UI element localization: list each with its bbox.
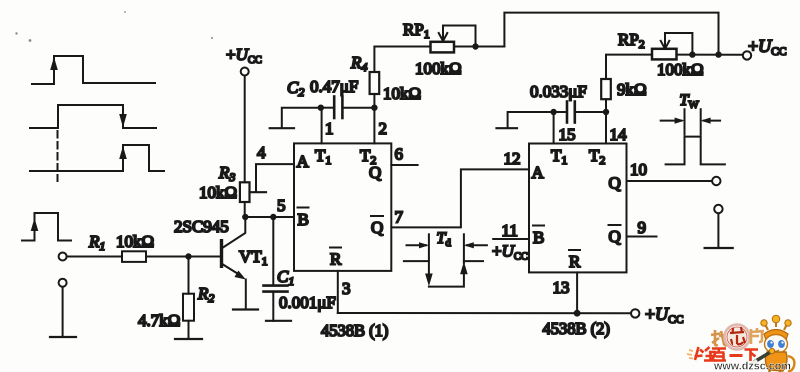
- pin 4 lead: [256, 164, 294, 191]
- emitter arrowhead: [234, 271, 247, 283]
- wire R3 to collector node: [244, 202, 246, 217]
- +Ucc terminal (bottom rail): [631, 309, 639, 317]
- wire C1 to ground: [272, 292, 274, 321]
- svg-text:4538B (1): 4538B (1): [321, 321, 388, 340]
- svg-text:R: R: [569, 252, 581, 271]
- svg-text:4: 4: [257, 143, 266, 162]
- wire 9k to RP2 left: [606, 55, 652, 79]
- svg-text:0.033μF: 0.033μF: [530, 82, 587, 101]
- IC U1 4538B(1) body: [294, 143, 391, 271]
- svg-text:14: 14: [610, 125, 628, 144]
- potentiometer RP2 body: [652, 49, 677, 60]
- svg-text:B: B: [298, 210, 309, 229]
- Tw waveform (output pulse): [666, 137, 725, 165]
- node (RP2 wiper junction): [689, 51, 695, 57]
- output terminal (pin 10): [712, 177, 720, 185]
- pin 13 lead: [576, 272, 578, 313]
- wire C3 to ground: [508, 112, 554, 128]
- ground (output): [705, 247, 733, 249]
- transistor Q1 2SC945 base bar: [220, 239, 223, 268]
- node (top rail junction): [715, 51, 721, 57]
- svg-text:100kΩ: 100kΩ: [415, 59, 462, 78]
- waveform W4 (input trigger pulse): [22, 213, 71, 241]
- pin 1 lead: [321, 108, 323, 144]
- svg-text:4538B (2): 4538B (2): [543, 319, 610, 338]
- watermark logo group (dzsc): [687, 315, 794, 372]
- svg-text:R: R: [330, 250, 342, 269]
- bottom rail wire: [338, 312, 631, 314]
- svg-text:10kΩ: 10kΩ: [199, 183, 237, 202]
- watermark glyph PIAN (tan outline char): [751, 328, 764, 344]
- ground (input): [50, 336, 76, 338]
- ground (emitter): [233, 308, 258, 310]
- node (C3 left, above pin 15): [550, 109, 556, 115]
- waveform W2 (middle-left wide pulse, falling-edge arrow): [30, 105, 156, 128]
- resistor R4: [370, 72, 380, 94]
- wire emitter to ground: [245, 280, 247, 310]
- potentiometer RP1 body: [431, 42, 455, 53]
- pin 14 lead: [605, 112, 607, 144]
- watermark magnifier with XIN char: [725, 325, 750, 350]
- svg-text:12: 12: [504, 149, 521, 168]
- wire 9k to C3 node: [605, 99, 607, 112]
- wire node to R2: [188, 257, 190, 294]
- wire RP2 right to +Ucc terminal: [678, 54, 743, 56]
- pin 2 lead: [373, 108, 375, 144]
- ground (C1): [266, 320, 291, 322]
- pin 3 lead: [337, 271, 339, 313]
- scan specks: [15, 11, 213, 42]
- Td waveform ticks: [428, 234, 430, 260]
- pin 10 lead: [627, 180, 713, 182]
- node (RP1 output): [472, 43, 478, 49]
- wire input to R1: [67, 256, 122, 258]
- label Q-bar (U1): [371, 216, 383, 237]
- svg-text:100kΩ: 100kΩ: [657, 60, 704, 79]
- svg-text:2SC945: 2SC945: [174, 217, 229, 236]
- resistor R3: [240, 182, 250, 202]
- wire node to C1: [272, 217, 274, 284]
- node (C3 right, above pin 14): [603, 109, 609, 115]
- wire terminal to ground: [717, 213, 719, 248]
- svg-text:B: B: [533, 228, 544, 247]
- resistor R5 9kΩ: [601, 79, 611, 99]
- dashed timing line: [57, 131, 59, 181]
- svg-text:3: 3: [342, 279, 351, 298]
- pin 9 lead: [627, 236, 657, 238]
- watermark red text WEIKUYIXIA: [695, 347, 759, 361]
- svg-text:7: 7: [395, 208, 404, 227]
- node (C2 right, above pin 2): [371, 105, 377, 111]
- wire RP1 right to node: [456, 46, 504, 48]
- svg-text:Q: Q: [369, 163, 381, 182]
- wire C2 to ground: [282, 108, 321, 128]
- svg-text:5: 5: [277, 196, 286, 215]
- node (collector / R3): [242, 214, 248, 220]
- resistor R2: [183, 294, 194, 321]
- capacitor C1: [264, 286, 288, 292]
- ground (R2): [175, 338, 202, 340]
- wire R1 to node: [146, 256, 189, 258]
- output ground terminal: [714, 205, 722, 213]
- waveform W3 (delayed pulse with rising-edge arrow): [30, 145, 164, 171]
- wire terminal to ground: [62, 287, 64, 337]
- resistor R1: [122, 251, 146, 262]
- svg-text:www.dzsc.com: www.dzsc.com: [713, 361, 791, 372]
- ground (pin 4): [250, 191, 266, 193]
- svg-text:2: 2: [379, 119, 388, 138]
- label B-bar (U2): [533, 226, 544, 248]
- node (C2 left, above pin 1): [318, 105, 324, 111]
- wire +Ucc to R3: [244, 76, 246, 183]
- node (base junction): [185, 253, 191, 259]
- wire node to base: [189, 256, 221, 258]
- svg-text:0.47μF: 0.47μF: [310, 77, 358, 96]
- ground (C3): [497, 127, 518, 129]
- svg-text:11: 11: [502, 221, 518, 240]
- input terminal: [59, 253, 67, 261]
- svg-text:9: 9: [638, 218, 647, 237]
- transistor emitter lead: [223, 265, 241, 276]
- svg-text:9kΩ: 9kΩ: [617, 80, 647, 99]
- Tw waveform ticks: [684, 109, 686, 134]
- svg-text:Q: Q: [609, 174, 621, 193]
- node (pin 13 on rail): [574, 310, 581, 317]
- capacitor C2: [321, 97, 375, 119]
- svg-text:10: 10: [630, 160, 647, 179]
- svg-text:A: A: [297, 152, 310, 171]
- label B-bar (U1): [298, 208, 309, 230]
- pin 7 lead (to pin 12 of U2): [391, 169, 529, 227]
- capacitor C3 0.033µF: [554, 102, 606, 123]
- svg-text:Q: Q: [371, 218, 383, 237]
- svg-text:A: A: [532, 163, 545, 182]
- label Q-bar (U2): [609, 225, 621, 246]
- wire top rail to +Ucc: [504, 13, 718, 55]
- +Ucc terminal (R3 top): [241, 68, 249, 76]
- ground (C2): [270, 127, 294, 129]
- waveform W1 (top-left pulse with rising-edge arrow): [32, 56, 155, 84]
- pin 15 lead: [553, 112, 555, 144]
- pin 11 lead: [493, 238, 529, 240]
- svg-text:10kΩ: 10kΩ: [383, 84, 421, 103]
- RP1 wiper arrow: [439, 26, 476, 47]
- label R-bar (U2): [569, 250, 581, 271]
- svg-text:15: 15: [559, 125, 576, 144]
- watermark swoosh: [687, 350, 693, 359]
- wire R2 to ground: [188, 321, 190, 339]
- svg-text:6: 6: [395, 145, 404, 164]
- label R-bar (U1): [330, 248, 342, 269]
- svg-text:4.7kΩ: 4.7kΩ: [138, 311, 180, 330]
- watermark mascot: [752, 315, 794, 372]
- Td dimension arrows: [407, 242, 487, 248]
- svg-text:1: 1: [325, 119, 334, 138]
- wire collector node to pin5: [245, 216, 294, 218]
- RP2 wiper arrow: [661, 33, 693, 55]
- watermark glyph ZHAO (tan outline char): [711, 330, 729, 345]
- wire C2 right node to R4: [373, 94, 375, 108]
- pin 6 lead: [391, 164, 417, 166]
- transistor collector lead: [223, 221, 245, 248]
- +Ucc terminal (top right): [743, 51, 751, 59]
- node (C1 junction): [270, 214, 276, 220]
- svg-text:Q: Q: [609, 227, 621, 246]
- Td waveform (negative pulse with edge arrows): [404, 261, 483, 287]
- wire R4 to RP1: [374, 47, 430, 73]
- Tw dimension arrows: [661, 118, 720, 124]
- svg-text:10kΩ: 10kΩ: [116, 232, 154, 251]
- IC U2 4538B(2) body: [529, 144, 627, 273]
- svg-text:13: 13: [553, 278, 570, 297]
- input ground terminal: [59, 279, 67, 287]
- svg-text:0.001μF: 0.001μF: [279, 293, 336, 312]
